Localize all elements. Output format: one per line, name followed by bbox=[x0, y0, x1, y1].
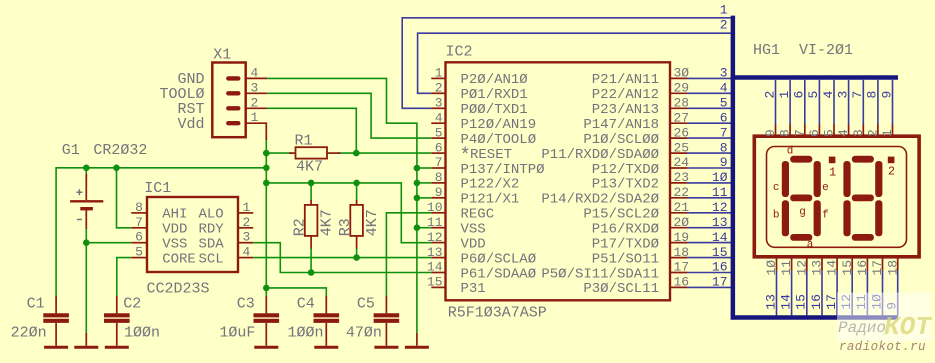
X1 pin 1 contact bar bbox=[228, 121, 238, 125]
IC1 pin 7 stub left bbox=[131, 227, 147, 229]
IC2 pin 7 stub left bbox=[431, 167, 445, 169]
wire IC1 VDD to Vdd rail bbox=[117, 168, 132, 228]
IC2 pin 23 stub right bbox=[670, 182, 687, 184]
svg-text:3: 3 bbox=[851, 129, 866, 137]
svg-text:P5Ø/SI11/SDA11: P5Ø/SI11/SDA11 bbox=[541, 266, 659, 282]
svg-text:15: 15 bbox=[794, 294, 809, 310]
svg-text:REGC: REGC bbox=[461, 207, 495, 223]
svg-text:19: 19 bbox=[674, 230, 690, 245]
battery G1 symbol bbox=[85, 174, 87, 200]
svg-text:13: 13 bbox=[763, 294, 778, 310]
wire Vdd to R2 R3 tops to IC2 VDD pin12 bbox=[266, 183, 431, 243]
svg-text:23: 23 bbox=[674, 170, 690, 185]
wire battery top lead bbox=[85, 168, 87, 178]
svg-text:5: 5 bbox=[720, 96, 728, 111]
svg-text:RESET: RESET bbox=[470, 147, 512, 163]
svg-text:P122/X2: P122/X2 bbox=[461, 177, 520, 193]
wire R1 row: Vdd to IC2 *RESET bbox=[266, 152, 292, 154]
wire display bottom pin 11 net 14 bbox=[791, 271, 793, 316]
wire IC2 pin 27 to bus net 6 bbox=[687, 122, 732, 124]
node junction 10 bbox=[414, 180, 421, 187]
svg-text:1: 1 bbox=[829, 165, 836, 179]
svg-text:4: 4 bbox=[720, 81, 728, 96]
resistor R3 body bbox=[356, 200, 358, 205]
svg-text:22: 22 bbox=[674, 185, 690, 200]
svg-text:VDD: VDD bbox=[461, 236, 486, 252]
svg-text:11: 11 bbox=[779, 260, 794, 276]
IC1 pin 2 stub right bbox=[238, 227, 253, 229]
IC2 pin 16 stub right bbox=[670, 286, 687, 288]
IC1 pin 1 stub right bbox=[238, 212, 253, 214]
IC2 pin 8 stub left bbox=[431, 182, 445, 184]
op-amp/sensor IC1 body bbox=[147, 197, 238, 272]
node junction 15 bbox=[353, 254, 360, 261]
display top pin stub bbox=[833, 125, 835, 137]
IC2 pin 30 stub right bbox=[670, 77, 687, 79]
node junction 6 bbox=[263, 180, 270, 187]
capacitor C2 bbox=[116, 296, 118, 313]
IC2 pin 6 stub left bbox=[431, 152, 445, 154]
svg-text:P1Ø/SCLØØ: P1Ø/SCLØØ bbox=[583, 132, 659, 148]
display top pin stub bbox=[862, 125, 864, 137]
svg-text:P4Ø/TOOLØ: P4Ø/TOOLØ bbox=[461, 132, 537, 148]
IC2 pin 21 stub right bbox=[670, 212, 687, 214]
svg-text:8: 8 bbox=[435, 170, 443, 185]
svg-text:e: e bbox=[822, 182, 829, 194]
ground symbol under C4 bbox=[314, 346, 338, 349]
node junction 12 bbox=[414, 224, 421, 231]
svg-text:14: 14 bbox=[712, 230, 728, 245]
display top pin stub bbox=[775, 125, 777, 137]
display top pin stub bbox=[789, 125, 791, 137]
IC2 pin 24 stub right bbox=[670, 167, 687, 169]
bus main vertical and bottom run bbox=[733, 16, 898, 318]
svg-text:4K7: 4K7 bbox=[318, 209, 335, 236]
IC2 pin 25 stub right bbox=[670, 152, 687, 154]
ground symbol under battery G1 bbox=[85, 333, 87, 346]
svg-text:7: 7 bbox=[435, 155, 443, 170]
svg-text:6: 6 bbox=[792, 91, 807, 99]
wire R3 top lead bbox=[356, 183, 358, 201]
svg-text:6: 6 bbox=[435, 140, 443, 155]
svg-text:b: b bbox=[773, 210, 780, 222]
svg-text:P6Ø/SCLAØ: P6Ø/SCLAØ bbox=[461, 251, 537, 267]
IC2 pin 26 stub right bbox=[670, 137, 687, 139]
IC2 pin 27 stub right bbox=[670, 122, 687, 124]
svg-text:P147/AN18: P147/AN18 bbox=[583, 117, 659, 133]
svg-text:P16/RXDØ: P16/RXDØ bbox=[592, 222, 659, 238]
display top pin stub bbox=[818, 125, 820, 137]
svg-text:5: 5 bbox=[806, 91, 821, 99]
svg-text:VDD: VDD bbox=[162, 222, 187, 238]
svg-text:2: 2 bbox=[251, 95, 259, 110]
svg-text:2Ø: 2Ø bbox=[674, 215, 690, 230]
bus top bar over display bbox=[731, 75, 898, 80]
svg-text:3: 3 bbox=[720, 66, 728, 81]
connector X1 body bbox=[212, 63, 245, 138]
X1 pin 2 contact bar bbox=[228, 106, 238, 110]
svg-text:47Øn: 47Øn bbox=[346, 325, 382, 342]
wire display bottom pin 16 net 11 bbox=[866, 271, 868, 316]
svg-text:2: 2 bbox=[866, 129, 881, 137]
ground symbol under C3 bbox=[254, 346, 278, 349]
svg-text:3: 3 bbox=[251, 80, 259, 95]
wire C3 to C4 branch bbox=[266, 288, 326, 297]
wire display top pin 8 net 1 bbox=[789, 80, 791, 125]
wire IC2 pin 30 to bus net 3 bbox=[687, 77, 732, 79]
wire X1 GND staircase to ground net vertical bbox=[267, 78, 417, 333]
svg-text:VSS: VSS bbox=[461, 222, 486, 238]
wire IC2 pin 28 to bus net 5 bbox=[687, 107, 732, 109]
wire IC2 pin 22 to bus net 11 bbox=[687, 197, 732, 199]
wire IC2 pin 18 to bus net 15 bbox=[687, 257, 732, 259]
svg-text:1ØØn: 1ØØn bbox=[124, 325, 160, 342]
resistor R1 body bbox=[289, 152, 296, 154]
IC2 pin 20 stub right bbox=[670, 227, 687, 229]
wire IC2 pin 29 to bus net 4 bbox=[687, 92, 732, 94]
wire IC2 pin 24 to bus net 9 bbox=[687, 167, 732, 169]
svg-text:C1: C1 bbox=[27, 295, 45, 312]
svg-text:IC2: IC2 bbox=[446, 44, 473, 61]
IC1 pin 6 stub left bbox=[131, 242, 147, 244]
wire net 1 loop: IC2 pin3 over top to bus bbox=[402, 18, 730, 109]
svg-text:2: 2 bbox=[720, 18, 728, 33]
svg-text:26: 26 bbox=[674, 125, 690, 140]
display top pin stub bbox=[877, 125, 879, 137]
X1 pin 1 stub with corner down bbox=[246, 123, 267, 140]
svg-text:12: 12 bbox=[712, 200, 728, 215]
wire R2 top lead bbox=[310, 183, 312, 201]
svg-text:4: 4 bbox=[251, 65, 259, 80]
wire battery plus rail horizontal with C1 drop bbox=[56, 168, 266, 297]
display top pin stub bbox=[804, 125, 806, 137]
svg-text:G1: G1 bbox=[62, 142, 80, 159]
svg-text:8: 8 bbox=[865, 91, 880, 99]
svg-text:4K7: 4K7 bbox=[296, 159, 323, 176]
wire display bottom pin 17 net 10 bbox=[882, 271, 884, 316]
svg-text:P31: P31 bbox=[461, 281, 486, 297]
display bottom pin stub bbox=[776, 257, 778, 271]
wire IC2 pin8 tap bbox=[417, 182, 431, 184]
wire IC2 pin9 tap bbox=[417, 197, 431, 199]
svg-text:18: 18 bbox=[674, 245, 690, 260]
svg-text:P3Ø/SCL11: P3Ø/SCL11 bbox=[583, 281, 659, 297]
IC1 pin 3 stub right bbox=[238, 242, 253, 244]
svg-text:C2: C2 bbox=[123, 295, 141, 312]
svg-text:ALO: ALO bbox=[198, 207, 223, 223]
svg-text:C5: C5 bbox=[357, 295, 375, 312]
display bottom pin stub bbox=[806, 257, 808, 271]
node junction 8 bbox=[353, 180, 360, 187]
display bottom pin stub bbox=[866, 257, 868, 271]
display bottom pin stub bbox=[821, 257, 823, 271]
svg-text:16: 16 bbox=[674, 275, 690, 290]
wire IC2 pin 20 to bus net 13 bbox=[687, 227, 732, 229]
svg-text:12: 12 bbox=[427, 230, 443, 245]
wire R2 bottom to SDA line bbox=[310, 248, 312, 273]
wire SDA: IC1 pin3 to IC2 P61/SDAA0 bbox=[253, 243, 431, 273]
wire IC2 pin 26 to bus net 7 bbox=[687, 137, 732, 139]
svg-text:IC1: IC1 bbox=[144, 180, 171, 197]
svg-text:14: 14 bbox=[427, 260, 443, 275]
node junction 11 bbox=[414, 195, 421, 202]
svg-text:13: 13 bbox=[712, 215, 728, 230]
wire R3 bottom to SCL line bbox=[356, 248, 358, 258]
svg-text:4K7: 4K7 bbox=[364, 209, 381, 236]
wire display bottom pin 12 net 15 bbox=[806, 271, 808, 316]
IC2 pin 19 stub right bbox=[670, 242, 687, 244]
svg-text:R2: R2 bbox=[292, 218, 309, 236]
svg-text:17: 17 bbox=[870, 260, 885, 276]
node junction 4 bbox=[113, 165, 120, 172]
resistor R2 body bbox=[310, 200, 312, 205]
svg-text:a: a bbox=[807, 239, 814, 251]
svg-text:1: 1 bbox=[880, 129, 895, 137]
wire display bottom pin 10 net 13 bbox=[776, 271, 778, 316]
wire display bottom pin 18 net 9 bbox=[897, 271, 899, 316]
wire display bottom pin 13 net 16 bbox=[821, 271, 823, 316]
svg-text:15: 15 bbox=[427, 275, 443, 290]
wire net 2 loop: IC2 pin2 over top to bus bbox=[418, 33, 731, 93]
svg-text:1: 1 bbox=[777, 91, 792, 99]
svg-text:1: 1 bbox=[251, 110, 259, 125]
capacitor C4 bbox=[325, 296, 327, 313]
IC2 pin 22 stub right bbox=[670, 197, 687, 199]
svg-text:5: 5 bbox=[135, 245, 143, 260]
decimal point 1 bbox=[829, 157, 836, 164]
display top pin stub bbox=[892, 125, 894, 137]
svg-text:P17/TXDØ: P17/TXDØ bbox=[592, 236, 659, 252]
svg-text:1Ø: 1Ø bbox=[764, 260, 779, 276]
node junction 9 bbox=[414, 165, 421, 172]
wire display top pin 5 net 4 bbox=[833, 80, 835, 125]
svg-text:R3: R3 bbox=[337, 218, 354, 236]
wire X1 RST to R1 right node bbox=[267, 108, 356, 153]
svg-text:18: 18 bbox=[885, 260, 900, 276]
ground symbol under C2 bbox=[105, 346, 129, 349]
capacitor C3 bbox=[265, 296, 267, 313]
svg-text:1ØuF: 1ØuF bbox=[219, 325, 255, 342]
svg-text:7: 7 bbox=[720, 125, 728, 140]
node junction 7 bbox=[308, 180, 315, 187]
svg-text:14: 14 bbox=[778, 294, 793, 310]
display HG1 outer body bbox=[754, 136, 919, 257]
ground symbol on X1-GND net bbox=[416, 333, 418, 346]
wire SCL: IC1 pin4 to IC2 P60/SCLA0 bbox=[253, 257, 431, 259]
node junction 3 bbox=[83, 165, 90, 172]
svg-text:13: 13 bbox=[810, 260, 825, 276]
svg-text:17: 17 bbox=[712, 275, 728, 290]
svg-text:d: d bbox=[787, 146, 794, 158]
wire display bottom pin 15 net 12 bbox=[851, 271, 853, 316]
wire IC2 pin 16 to bus net 17 bbox=[687, 286, 732, 288]
svg-text:SDA: SDA bbox=[198, 237, 224, 253]
svg-text:R1: R1 bbox=[295, 133, 313, 150]
svg-text:КОТ: КОТ bbox=[884, 312, 932, 342]
svg-text:6: 6 bbox=[720, 110, 728, 125]
battery minus sign bbox=[77, 219, 82, 221]
IC2 pin 12 stub left bbox=[431, 242, 445, 244]
svg-text:2: 2 bbox=[243, 215, 251, 230]
svg-text:17: 17 bbox=[674, 260, 690, 275]
IC2 pin 10 stub left bbox=[431, 212, 445, 214]
IC2 pin 15 stub left bbox=[431, 286, 445, 288]
svg-text:VI-2Ø1: VI-2Ø1 bbox=[799, 42, 853, 59]
wire battery minus down to ground bbox=[85, 228, 87, 333]
svg-text:SCL: SCL bbox=[198, 251, 223, 267]
svg-text:12: 12 bbox=[794, 260, 809, 276]
svg-text:P15/SCL2Ø: P15/SCL2Ø bbox=[583, 207, 659, 223]
wire IC2 REGC to C5 bbox=[386, 213, 431, 297]
battery plus sign bbox=[76, 189, 82, 195]
node junction 5 bbox=[263, 165, 270, 172]
IC2 pin 28 stub right bbox=[670, 107, 687, 109]
svg-text:1: 1 bbox=[720, 2, 728, 17]
ground symbol under C1 bbox=[44, 346, 68, 349]
svg-text:13: 13 bbox=[427, 245, 443, 260]
svg-text:C4: C4 bbox=[297, 295, 315, 312]
X1 pin 3 contact bar bbox=[228, 91, 238, 95]
svg-text:P12/TXDØ: P12/TXDØ bbox=[592, 162, 659, 178]
svg-text:7: 7 bbox=[792, 129, 807, 137]
wire display top pin 9 net 2 bbox=[775, 80, 777, 125]
svg-text:4: 4 bbox=[243, 245, 251, 260]
svg-text:P12Ø/AN19: P12Ø/AN19 bbox=[461, 117, 537, 133]
svg-text:HG1: HG1 bbox=[753, 42, 780, 59]
svg-text:VSS: VSS bbox=[162, 237, 187, 253]
svg-text:16: 16 bbox=[712, 260, 728, 275]
display inner bezel bbox=[767, 147, 907, 248]
svg-text:P11/RXDØ/SDAØØ: P11/RXDØ/SDAØØ bbox=[541, 147, 659, 163]
svg-text:16: 16 bbox=[855, 260, 870, 276]
wire IC2 pin 21 to bus net 12 bbox=[687, 212, 732, 214]
wire display bottom pin 14 net 17 bbox=[836, 271, 838, 316]
IC2 pin 18 stub right bbox=[670, 257, 687, 259]
wire net Vdd vertical from X1 pin1 down to C3 bbox=[265, 138, 267, 297]
svg-text:AHI: AHI bbox=[162, 207, 187, 223]
svg-text:CC2D23S: CC2D23S bbox=[147, 281, 210, 298]
svg-text:CORE: CORE bbox=[162, 251, 196, 267]
svg-text:1: 1 bbox=[435, 66, 443, 81]
svg-text:9: 9 bbox=[720, 155, 728, 170]
svg-text:1: 1 bbox=[243, 200, 251, 215]
IC2 pin 3 stub left bbox=[431, 107, 445, 109]
svg-text:17: 17 bbox=[824, 294, 839, 310]
wire X1 TOOL0 to IC2 P40/TOOL0 bbox=[267, 93, 431, 138]
7-segment digit 2 bbox=[843, 156, 882, 241]
svg-text:16: 16 bbox=[809, 294, 824, 310]
svg-text:9: 9 bbox=[435, 185, 443, 200]
svg-text:4: 4 bbox=[836, 129, 851, 137]
microcontroller IC2 body bbox=[446, 62, 671, 300]
svg-text:5: 5 bbox=[822, 129, 837, 137]
IC1 pin 5 stub left bbox=[131, 257, 147, 259]
svg-text:PØØ/TXD1: PØØ/TXD1 bbox=[461, 102, 528, 118]
node junction 2 bbox=[353, 150, 360, 157]
svg-text:RDY: RDY bbox=[198, 222, 224, 238]
svg-text:2: 2 bbox=[762, 91, 777, 99]
svg-text:6: 6 bbox=[807, 129, 822, 137]
svg-text:X1: X1 bbox=[213, 47, 231, 64]
watermark radiokot bbox=[837, 293, 931, 342]
wire IC2 pin 19 to bus net 14 bbox=[687, 242, 732, 244]
display bottom pin stub bbox=[836, 257, 838, 271]
wire display top pin 3 net 7 bbox=[862, 80, 864, 125]
svg-text:Vdd: Vdd bbox=[177, 116, 204, 133]
svg-text:7: 7 bbox=[850, 91, 865, 99]
display top pin stub bbox=[848, 125, 850, 137]
X1 pin 4 stub bbox=[246, 77, 268, 79]
svg-text:c: c bbox=[773, 182, 780, 194]
wire display top pin 4 net 3 bbox=[848, 80, 850, 125]
capacitor C5 bbox=[385, 296, 387, 313]
wire IC1 CORE to C2 bbox=[117, 258, 132, 297]
svg-text:10: 10 bbox=[427, 200, 443, 215]
svg-text:8: 8 bbox=[135, 200, 143, 215]
7-segment digit 1 bbox=[782, 156, 821, 241]
X1 pin 4 contact bar bbox=[228, 76, 238, 80]
svg-text:radiokot.ru: radiokot.ru bbox=[839, 340, 926, 354]
svg-text:9: 9 bbox=[879, 91, 894, 99]
IC2 pin 2 stub left bbox=[431, 92, 445, 94]
svg-text:24: 24 bbox=[674, 155, 690, 170]
display bottom pin stub bbox=[851, 257, 853, 271]
svg-text:8: 8 bbox=[720, 140, 728, 155]
svg-text:1Ø: 1Ø bbox=[712, 170, 728, 185]
IC2 pin 11 stub left bbox=[431, 227, 445, 229]
IC2 pin 9 stub left bbox=[431, 197, 445, 199]
node junction 1 bbox=[263, 150, 270, 157]
node junction 13 bbox=[83, 239, 90, 246]
svg-text:3Ø: 3Ø bbox=[674, 66, 690, 81]
X1 pin 3 stub bbox=[246, 92, 268, 94]
IC1 pin 4 stub right bbox=[238, 257, 253, 259]
IC2 pin 29 stub right bbox=[670, 92, 687, 94]
svg-text:PØ1/RXD1: PØ1/RXD1 bbox=[461, 87, 528, 103]
svg-text:CR2Ø32: CR2Ø32 bbox=[93, 142, 147, 159]
svg-text:2: 2 bbox=[435, 81, 443, 96]
IC2 pin 14 stub left bbox=[431, 272, 445, 274]
svg-text:7: 7 bbox=[135, 215, 143, 230]
node junction 16 bbox=[263, 285, 270, 292]
svg-text:f: f bbox=[822, 210, 829, 222]
svg-text:6: 6 bbox=[135, 230, 143, 245]
svg-text:P137/INTPØ: P137/INTPØ bbox=[461, 162, 545, 178]
wire IC2 pin7 tap bbox=[417, 167, 431, 169]
display bottom pin stub bbox=[791, 257, 793, 271]
svg-text:Радио: Радио bbox=[838, 319, 886, 337]
svg-text:P23/AN13: P23/AN13 bbox=[592, 102, 659, 118]
wire display top pin 7 net 6 bbox=[804, 80, 806, 125]
svg-text:1ØØn: 1ØØn bbox=[287, 325, 323, 342]
svg-text:3: 3 bbox=[243, 230, 251, 245]
wire IC2 pin11 VSS tap bbox=[417, 227, 431, 229]
svg-text:g: g bbox=[799, 206, 806, 218]
wire display top pin 2 net 8 bbox=[877, 80, 879, 125]
IC2 pin 5 stub left bbox=[431, 137, 445, 139]
svg-text:21: 21 bbox=[674, 200, 690, 215]
svg-text:22Øn: 22Øn bbox=[11, 325, 47, 342]
svg-text:4: 4 bbox=[821, 91, 836, 99]
svg-text:P2Ø/AN1Ø: P2Ø/AN1Ø bbox=[461, 72, 528, 88]
capacitor C1 bbox=[55, 296, 57, 313]
wire display top pin 1 net 9 bbox=[892, 80, 894, 125]
svg-text:P121/X1: P121/X1 bbox=[461, 192, 520, 208]
wire IC2 pin 23 to bus net 10 bbox=[687, 182, 732, 184]
svg-text:9: 9 bbox=[763, 129, 778, 137]
svg-text:5: 5 bbox=[435, 125, 443, 140]
svg-text:15: 15 bbox=[712, 245, 728, 260]
